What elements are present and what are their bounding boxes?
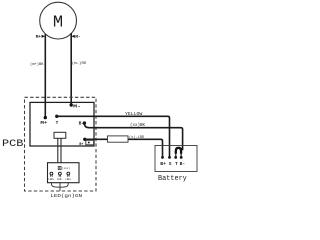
svg-text:B-: B- bbox=[79, 121, 85, 127]
arrow at motor M- terminal bbox=[72, 35, 75, 38]
svg-text:M+: M+ bbox=[40, 120, 47, 126]
wire motor M- lead (red) bbox=[70, 33, 72, 105]
wire LED ribbon left bbox=[57, 138, 59, 162]
svg-text:(m-)RD: (m-)RD bbox=[72, 61, 87, 66]
svg-text:LED-: LED- bbox=[57, 178, 63, 181]
pad T dot on PCB bbox=[55, 115, 58, 118]
svg-text:Battery: Battery bbox=[158, 175, 187, 183]
PCB board solid outline bbox=[30, 102, 94, 146]
svg-text:(x)-LRD: (x)-LRD bbox=[129, 135, 145, 140]
pad M- dot on PCB bbox=[70, 103, 73, 106]
PCB dashed outline box bbox=[25, 97, 97, 191]
svg-text:B-: B- bbox=[180, 161, 186, 167]
arrow at motor M+ terminal bbox=[42, 35, 45, 38]
wire LED harness left bbox=[52, 183, 61, 188]
svg-text:(xx)BK: (xx)BK bbox=[130, 123, 145, 128]
battery pack box bbox=[155, 146, 197, 172]
LED D1 bbox=[50, 172, 53, 175]
wire B- to battery (black) bbox=[84, 123, 182, 150]
svg-text:(xxx): (xxx) bbox=[62, 166, 70, 170]
svg-text:B+: B+ bbox=[79, 142, 83, 146]
wire T to battery S (yellow) bbox=[57, 116, 170, 157]
LED D3 bbox=[67, 172, 70, 175]
svg-text:M-: M- bbox=[75, 35, 80, 40]
thermistor body right shoulder bbox=[181, 148, 183, 150]
LED module icon bbox=[58, 166, 61, 169]
svg-text:M-: M- bbox=[73, 104, 81, 110]
svg-text:M: M bbox=[53, 14, 63, 33]
wire motor M+ lead (black) bbox=[44, 34, 46, 117]
svg-text:LED+: LED+ bbox=[49, 178, 55, 181]
svg-text:B+: B+ bbox=[160, 161, 166, 167]
connector box on B+ pad bbox=[86, 140, 94, 145]
svg-text:M+: M+ bbox=[36, 35, 42, 40]
fuse F1 on red wire bbox=[108, 136, 129, 142]
motor M1 circle bbox=[40, 2, 77, 39]
connector J1 to LED module bbox=[54, 132, 66, 138]
svg-text:LED+: LED+ bbox=[65, 178, 71, 181]
thermistor lead to B- bbox=[180, 153, 182, 157]
connector inner contact bbox=[88, 142, 90, 144]
svg-text:T: T bbox=[175, 161, 178, 167]
pad B- dot on PCB bbox=[83, 121, 86, 124]
battery terminal B+ dot bbox=[161, 156, 164, 159]
svg-text:S: S bbox=[169, 161, 172, 167]
LED D2 bbox=[59, 172, 62, 175]
wire LED ribbon right bbox=[60, 138, 62, 162]
battery terminal T dot bbox=[174, 156, 177, 159]
LED module icon dot bbox=[59, 167, 60, 168]
thermistor lead to T bbox=[175, 153, 177, 157]
wire LED harness right bbox=[60, 183, 68, 188]
thermistor jumper across T and B- bbox=[176, 148, 181, 154]
svg-text:PCB: PCB bbox=[2, 139, 23, 150]
svg-text:LED(gn)GN: LED(gn)GN bbox=[50, 194, 82, 199]
wire B+ to battery (red) bbox=[85, 139, 163, 157]
LED module box bbox=[48, 163, 80, 183]
svg-text:T: T bbox=[56, 120, 59, 126]
battery terminal B- dot bbox=[180, 156, 183, 159]
svg-text:(m+)BK: (m+)BK bbox=[30, 62, 44, 67]
svg-text:YELLOW: YELLOW bbox=[125, 112, 143, 117]
pad B+ dot on PCB bbox=[83, 138, 86, 141]
battery terminal S dot bbox=[168, 156, 171, 159]
pad M+ dot on PCB bbox=[44, 116, 47, 119]
wire LED harness mid bbox=[59, 183, 61, 191]
